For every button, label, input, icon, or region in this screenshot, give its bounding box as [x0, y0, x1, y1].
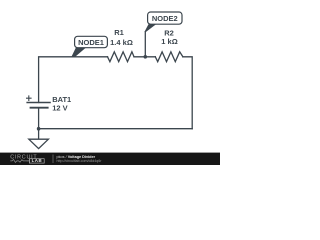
svg-text:NODE2: NODE2	[152, 14, 178, 23]
junction dot left	[37, 127, 41, 131]
footer bar	[0, 153, 220, 165]
svg-text:1 kΩ: 1 kΩ	[161, 37, 177, 46]
footer logo waveform	[10, 159, 27, 162]
svg-text:R1: R1	[114, 28, 124, 37]
wire R1 to R2	[134, 56, 155, 58]
wire NODE2 stem	[144, 31, 146, 57]
wire R2 to right corner and down	[183, 57, 192, 129]
footer logo LAB box	[27, 159, 30, 163]
node NODE2 callout tail	[145, 24, 157, 32]
node NODE1 box	[75, 36, 108, 47]
svg-text:http://circuitlab.com/c8d4q6r: http://circuitlab.com/c8d4q6r	[57, 159, 103, 163]
svg-text:LAB: LAB	[32, 158, 43, 163]
svg-text:1.4 kΩ: 1.4 kΩ	[110, 38, 133, 47]
node NODE1 callout tail	[71, 47, 86, 57]
wire top-left: battery top to R1	[39, 57, 108, 103]
resistor R2	[155, 52, 183, 62]
footer separator	[52, 155, 54, 164]
ground	[29, 139, 49, 148]
junction dot node2	[144, 55, 148, 59]
battery BAT1 plates	[26, 103, 50, 108]
node NODE2 box	[148, 12, 182, 24]
wire bottom	[39, 128, 193, 130]
resistor R1	[108, 52, 135, 62]
svg-text:12 V: 12 V	[52, 103, 67, 112]
svg-text:NODE1: NODE1	[78, 38, 104, 47]
battery plus sign	[26, 95, 32, 101]
wire battery bottom to ground	[38, 108, 40, 139]
